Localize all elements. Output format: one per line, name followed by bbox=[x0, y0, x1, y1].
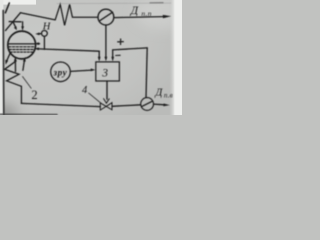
wire: steam pipe descending to break bbox=[21, 13, 56, 20]
svg-text:Д: Д bbox=[130, 5, 139, 17]
arrow ZRU to box bbox=[70, 70, 92, 71]
wire: Dpv signal up bbox=[146, 48, 147, 98]
flow sensor Dpp circle bbox=[98, 9, 114, 25]
wire: arrow into drum diagonal bbox=[13, 22, 15, 27]
flow sensor Dpv circle bbox=[141, 98, 154, 111]
wire: Dpv signal horizontal bbox=[113, 48, 148, 50]
arrowhead steam out bbox=[163, 15, 171, 18]
scan background bbox=[0, 0, 182, 115]
svg-text:п.в: п.в bbox=[164, 92, 173, 100]
wire: downcomer arrow bbox=[7, 53, 11, 61]
wire: arrow into drum top vertical bbox=[22, 22, 24, 27]
wire: feed arrow into drum right + H signal line bbox=[39, 49, 99, 51]
wire: Dpp signal down into box bbox=[105, 25, 107, 57]
wire: feed arrow right bbox=[154, 103, 165, 106]
svg-text:H: H bbox=[42, 21, 52, 32]
wire: break zigzag steam line bbox=[55, 4, 98, 25]
wire: Dpv signal down into box bbox=[112, 50, 114, 57]
bottom-left page edge bbox=[0, 113, 57, 115]
svg-text:зру: зру bbox=[53, 67, 68, 77]
svg-text:3: 3 bbox=[101, 68, 108, 80]
riser arrow 2 bbox=[23, 60, 25, 70]
arrow into drum right at level bbox=[38, 43, 40, 45]
arrowhead into drum top bbox=[21, 26, 24, 30]
wire: break zigzag downcomer bbox=[5, 61, 22, 86]
svg-text:4: 4 bbox=[82, 85, 88, 96]
svg-text:2: 2 bbox=[31, 88, 37, 102]
wire: H signal corner down into box bbox=[98, 51, 100, 57]
top rule dark blob bbox=[150, 2, 163, 4]
label 1 tick bbox=[5, 3, 9, 13]
minus sign bbox=[115, 54, 120, 56]
wire: steam pipe diagonal from lower-left bbox=[6, 13, 21, 31]
wire: feed pipe left segment bbox=[21, 103, 100, 106]
valve 4 bowtie bbox=[100, 103, 106, 110]
riser arrow 1 bbox=[14, 60, 16, 71]
arrowhead into drum bbox=[14, 26, 17, 30]
leader line label 2 bbox=[23, 77, 32, 89]
drum bbox=[8, 31, 36, 59]
wire: H signal down bbox=[43, 36, 45, 49]
leader line label 4 bbox=[89, 93, 101, 103]
faint top rule bbox=[57, 2, 171, 5]
flow sensor Dpp slash bbox=[100, 12, 113, 21]
flow sensor Dpv slash bbox=[142, 101, 153, 106]
wire: steam out arrow bbox=[114, 17, 164, 18]
wire: downcomer vertical bbox=[20, 86, 22, 103]
arrow H to drum bbox=[39, 33, 42, 35]
setter ZRU circle bbox=[51, 62, 71, 82]
wire: feed pipe right segment bbox=[112, 105, 141, 107]
open arrowhead at valve bbox=[104, 99, 110, 104]
plus sign bbox=[117, 39, 124, 46]
wire: box output down to valve bbox=[106, 81, 108, 99]
level sensor circle H bbox=[42, 31, 48, 37]
svg-text:п.п: п.п bbox=[141, 9, 151, 18]
svg-text:Д: Д bbox=[154, 87, 163, 99]
wire: feed stub horizontal bbox=[9, 21, 21, 23]
drum water level lines bbox=[8, 43, 35, 45]
page edge line left bbox=[2, 11, 5, 116]
regulator box 3 bbox=[96, 62, 120, 81]
